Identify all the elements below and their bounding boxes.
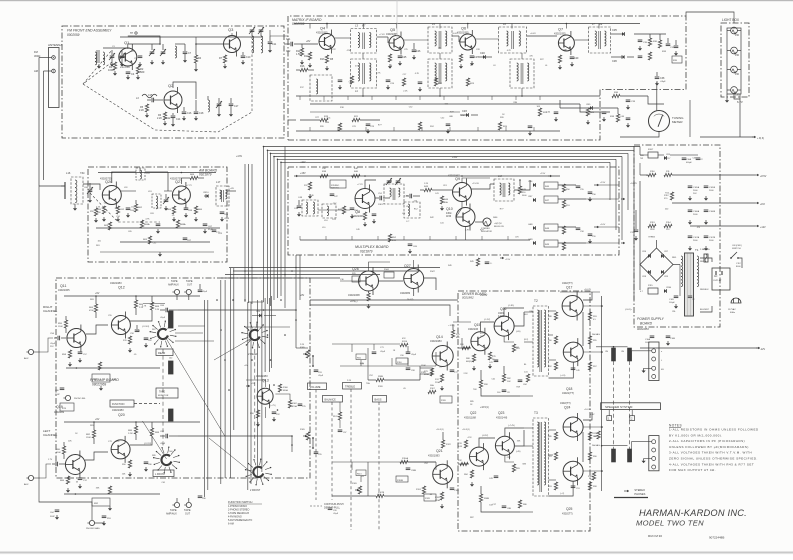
matrix bottom res row: [350, 76, 474, 86]
T3 secondary out: [549, 430, 557, 480]
preamp extra labels: [90, 299, 157, 457]
svg-text:+8.5(+): +8.5(+): [350, 301, 358, 303]
bridge rectifier: [640, 248, 673, 281]
transistor Q19: [65, 451, 85, 479]
left meter feed: [559, 100, 561, 108]
transistor Q6: [460, 30, 476, 54]
tone rail L: [332, 462, 436, 496]
svg-text:STEREO: STEREO: [634, 488, 645, 492]
svg-text:+15V: +15V: [540, 173, 546, 175]
matrix rail drop wire: [396, 24, 398, 29]
svg-text:2A-3AG: 2A-3AG: [592, 444, 600, 447]
svg-text:+10V: +10V: [300, 162, 306, 164]
AM antenna terminal: [52, 69, 56, 73]
volume wiper wires: [316, 354, 332, 420]
svg-text:+ 6.5(+): + 6.5(+): [448, 325, 455, 327]
psu diode CR5b: [652, 154, 676, 163]
transistor Q7: [558, 31, 574, 55]
matrix cluster mid: [538, 108, 594, 125]
speaker terminal 2: [630, 416, 635, 421]
Q21 bottom res: [435, 492, 444, 509]
speaker strip bottom gnd: [642, 459, 646, 464]
driver out to T2: [520, 376, 533, 512]
matrix bottom caps: [338, 80, 423, 92]
svg-text:LIGHT BOX: LIGHT BOX: [722, 18, 740, 22]
mpx L10 coil: [322, 204, 336, 222]
svg-text:Q16: Q16: [500, 307, 507, 311]
Q19 emitter parts: [60, 476, 88, 493]
matrix IF board outline: [288, 16, 686, 140]
bus group2 wires: [248, 296, 272, 490]
svg-text:IFT: IFT: [362, 25, 366, 28]
preamp out cap: [160, 305, 178, 319]
Q24 top wire: [583, 409, 592, 420]
Q12 top res: [134, 296, 143, 315]
svg-text:4.7K: 4.7K: [465, 230, 470, 232]
svg-text:4.7K: 4.7K: [468, 437, 473, 439]
matrix top labels sprinkle: [347, 48, 568, 93]
svg-text:430214-B: 430214-B: [496, 416, 508, 420]
svg-text:Q17: Q17: [566, 286, 573, 290]
Q4 emitter R13: [320, 55, 334, 71]
AM label: [34, 69, 38, 73]
matrix IF board label: [292, 18, 322, 26]
svg-text:(-12.4V): (-12.4V): [142, 326, 150, 328]
svg-text:CR5: CR5: [612, 29, 617, 32]
svg-text:.05µF: .05µF: [318, 375, 324, 377]
psu low caps: [669, 296, 695, 304]
Q13 top parts: [246, 383, 289, 392]
preamp rail R: [64, 292, 200, 296]
svg-text:+8.8: +8.8: [760, 203, 765, 206]
T2 primary wires: [528, 306, 562, 382]
ground Q1 emitter: [136, 75, 140, 80]
svg-text:TAPE: TAPE: [186, 279, 193, 283]
tuning meter: [649, 111, 670, 132]
svg-text:+8V: +8V: [230, 188, 234, 190]
mpx2 q27 bottom: [407, 289, 414, 302]
title Harman-Kardon: [639, 508, 747, 518]
treble link dashed: [350, 389, 352, 530]
speaker strip bottom wires: [632, 442, 652, 462]
mpx top rail: [294, 172, 560, 177]
mech link rear-front dashed: [163, 349, 255, 458]
FM rf coupling parts: [149, 44, 166, 65]
T3 label: [534, 411, 538, 415]
tape amp aux out labels top: [168, 279, 193, 287]
preamp R out wire: [178, 309, 297, 348]
svg-text:1.7V: 1.7V: [48, 459, 53, 461]
svg-text:MODEL TWO TEN: MODEL TWO TEN: [636, 519, 704, 528]
AM C67 cap: [203, 224, 214, 234]
svg-text:43021055: 43021055: [386, 32, 398, 36]
Q27 right res: [194, 206, 203, 222]
driver emit resistors: [512, 344, 520, 472]
driver labels sprinkle: [464, 311, 535, 507]
psu mid rail right: [700, 159, 760, 161]
preamp L bottom net: [64, 486, 160, 511]
tape bottom cap: [198, 496, 207, 500]
Q12 feedback cap: [130, 325, 150, 335]
Q17 top wire: [573, 288, 592, 300]
FM antenna terminal: [52, 56, 56, 60]
balance link dashed: [331, 402, 333, 500]
Q7 emitter parts: [558, 55, 579, 70]
svg-text:+15V: +15V: [300, 172, 306, 175]
ratio det diode CR5: [611, 29, 625, 36]
svg-text:2 REAR: 2 REAR: [248, 352, 257, 356]
power supply board label: [637, 317, 665, 331]
AC outlet slots: [716, 271, 722, 275]
voltage label +10V: [300, 162, 306, 164]
svg-text:BLK/WHT: BLK/WHT: [700, 309, 710, 311]
speaker wire bottom2: [0, 0, 1, 1]
transistor Q28: [359, 267, 379, 295]
mpx out arrows: [594, 182, 606, 228]
matrix sub wire: [580, 104, 610, 112]
svg-text:Q9: Q9: [455, 177, 460, 181]
variable caps at Q3: [249, 27, 264, 34]
svg-text:43021065: 43021065: [58, 288, 70, 292]
driver T2 left wires: [524, 312, 533, 446]
Q20 right res: [144, 422, 160, 445]
svg-text:560: 560: [140, 70, 145, 74]
AM rail drops: [112, 168, 182, 178]
Q27 label: [170, 177, 192, 188]
switch wire: [736, 258, 742, 268]
speaker strip top gnd: [642, 368, 646, 373]
Q27 top res: [181, 174, 204, 184]
wire to Q9: [440, 185, 452, 190]
driver input wires: [481, 396, 533, 438]
L5 label: [432, 22, 435, 26]
tone labels sprinkle: [347, 350, 442, 496]
wire Q7 to L7: [574, 39, 588, 41]
Q9 label: [448, 174, 480, 186]
line cord: [712, 306, 736, 316]
matrix row2 bottom wires: [363, 88, 522, 96]
svg-text:SWITCH: SWITCH: [732, 248, 741, 250]
wire L5-Q6: [452, 33, 459, 42]
svg-text:4302(1)68: 4302(1)68: [464, 416, 476, 420]
transistor Q4: [319, 30, 335, 54]
svg-text:+15V: +15V: [505, 259, 511, 261]
Q14 bottom res: [435, 374, 444, 391]
transistor Q18: [563, 338, 583, 366]
Q24 collector wire: [583, 426, 603, 428]
svg-text:+16.2V: +16.2V: [584, 409, 592, 411]
tone out res: [428, 384, 452, 403]
C38 cap: [655, 72, 667, 86]
front wafer switch: [153, 447, 180, 474]
svg-text:Q8: Q8: [355, 210, 360, 214]
contour sw2: [312, 437, 314, 449]
Q20 emitter parts: [122, 460, 153, 477]
driver mid res R82: [502, 366, 511, 383]
svg-text:470A: 470A: [292, 405, 297, 408]
speaker wire top: [596, 346, 602, 348]
tape monitor slide 2: [169, 361, 174, 374]
matrix mid caps1: [412, 43, 421, 60]
tone rect r1: [356, 354, 366, 360]
title number: [709, 536, 724, 540]
AM varcap2: [163, 194, 169, 211]
svg-text:C15: C15: [148, 94, 153, 97]
psu gnd row2: [688, 220, 708, 225]
svg-text:+6.4V: +6.4V: [530, 33, 536, 35]
svg-text:2A-3AG: 2A-3AG: [592, 333, 600, 336]
svg-text:54K: 54K: [354, 168, 358, 170]
driver low caps: [502, 500, 528, 510]
Q2 left parts: [139, 104, 149, 118]
matrix bottom rail: [296, 130, 560, 132]
svg-text:C10A: C10A: [686, 158, 692, 161]
mpx out arrows2: [621, 198, 625, 244]
mpx 19k filter parts: [338, 206, 359, 219]
mpx2 q28 bottom: [366, 291, 370, 309]
fuse F4: [628, 449, 632, 462]
R123 res: [588, 472, 596, 481]
Q4 bias R12: [304, 52, 312, 68]
Q1 labels extra: [112, 46, 135, 69]
mpx diode col CR9: [528, 239, 536, 245]
svg-text:(+7.4V): (+7.4V): [508, 425, 515, 427]
rear wafer switch: [150, 321, 177, 348]
svg-text:HARMAN-KARDON INC.: HARMAN-KARDON INC.: [639, 508, 747, 518]
preamp L out cap: [160, 431, 178, 445]
bus wire A1: [264, 147, 641, 303]
mpx bottom wire2: [320, 231, 480, 233]
Q9 right res R45: [518, 180, 527, 197]
svg-text:R64A: R64A: [144, 223, 150, 226]
+6V label: [244, 365, 248, 367]
T1 primary wires: [700, 258, 712, 312]
svg-text:150K: 150K: [56, 452, 61, 454]
svg-text:CR2: CR2: [480, 52, 485, 55]
psu gnd row1: [688, 196, 708, 201]
svg-text:+16.5(1): +16.5(1): [462, 429, 470, 431]
svg-text:C10A: C10A: [645, 338, 651, 341]
bridge diode CR6: [642, 251, 651, 258]
Q7 label: [554, 28, 566, 36]
svg-text:Q23: Q23: [498, 411, 505, 415]
volume lower pot: [352, 483, 362, 494]
tone top wire L: [332, 456, 376, 470]
bus wire B1: [284, 147, 286, 309]
transistor Q17: [562, 292, 583, 321]
transistor Q3: [224, 32, 241, 57]
L2 coil: [175, 44, 185, 58]
fuse F3: [612, 449, 616, 462]
speaker strip top labels: [661, 351, 664, 371]
svg-text:C106A: C106A: [693, 210, 700, 213]
mpx2 mid res: [378, 269, 394, 278]
Q8 top wire: [357, 180, 376, 188]
wire Q1 collector: [128, 44, 160, 48]
lamp PL3: [727, 66, 741, 76]
Q15-Q16 wire: [480, 319, 494, 332]
driver labels extra: [462, 401, 475, 519]
svg-text:R116A: R116A: [402, 457, 409, 460]
svg-text:2 FRONT: 2 FRONT: [250, 489, 261, 492]
svg-text:C107A: C107A: [693, 236, 700, 239]
bridge diode CR9: [661, 270, 669, 278]
transistor Q8: [355, 185, 375, 213]
svg-text:0921879: 0921879: [360, 250, 373, 254]
Q15 in wire: [458, 344, 471, 350]
Q10 bulb wire: [475, 222, 504, 228]
tape jack caps top: [198, 284, 208, 293]
svg-text:+9V: +9V: [95, 292, 100, 295]
C15 label: [136, 94, 153, 100]
matrix mid hwire: [310, 111, 460, 113]
svg-text:C105B: C105B: [709, 187, 716, 189]
fuse F1: [605, 348, 616, 361]
svg-text:R98B: R98B: [484, 498, 490, 500]
Q19-Q20 wire: [85, 452, 108, 460]
svg-text:+7.7V: +7.7V: [186, 185, 192, 187]
Q17 label: [562, 281, 573, 290]
svg-text:+8V: +8V: [306, 40, 311, 43]
tape jack 2 top: [184, 289, 191, 300]
Q2 bottom cap pair: [166, 113, 181, 127]
svg-text:POWER SUPPLY: POWER SUPPLY: [637, 317, 665, 321]
light box outline: [721, 23, 749, 97]
Q21 label: [428, 449, 443, 458]
speaker fuse label 2: [592, 444, 600, 447]
tone lower res2: [376, 492, 436, 501]
transistor Q13: [257, 384, 273, 408]
svg-text:150K: 150K: [86, 437, 91, 439]
svg-text:4.7K: 4.7K: [404, 195, 409, 197]
svg-text:RED/BLK: RED/BLK: [700, 289, 709, 291]
transistor Q22: [470, 443, 489, 470]
Q26 label: [100, 177, 112, 185]
on-off switch: [730, 245, 742, 259]
svg-text:CR4: CR4: [528, 181, 533, 183]
Q20 top res: [128, 422, 138, 440]
mpx row2 wires: [300, 260, 414, 281]
svg-text:(-16.2)+: (-16.2)+: [625, 309, 633, 311]
svg-text:+6(12)V: +6(12)V: [494, 223, 502, 225]
matrix rail drop wire: [309, 24, 311, 29]
psu cap row2: [688, 210, 716, 216]
center extra hwires: [130, 304, 290, 327]
psu gnd row3: [688, 246, 708, 251]
AM osc coil L19: [148, 191, 161, 209]
tape monitor slide switch: [169, 311, 174, 328]
Q24 label: [560, 401, 571, 410]
tone top wire R: [332, 344, 400, 358]
mpx diode col CR4: [528, 181, 536, 187]
svg-text:3-ALL VOLTAGES TAKEN WITH V.T.: 3-ALL VOLTAGES TAKEN WITH V.T.V.M. WITH: [669, 451, 752, 455]
contour bottom cap: [328, 508, 339, 515]
driver mid caps: [489, 360, 498, 480]
tone treble caps: [400, 352, 417, 372]
psu R113 R114: [648, 222, 672, 231]
Q13 right parts: [288, 400, 306, 408]
driver bottom rail: [462, 396, 520, 512]
svg-text:PHONO MAG: PHONO MAG: [86, 527, 100, 530]
svg-text:(+.01): (+.01): [560, 375, 566, 377]
svg-text:R107: R107: [648, 149, 654, 151]
AM extra wires: [100, 172, 172, 194]
L3 label: [355, 24, 366, 28]
svg-text:Q3: Q3: [228, 27, 234, 32]
matrix input cap: [284, 38, 300, 53]
tone mid res: [396, 358, 432, 374]
bus wire B2: [244, 164, 246, 302]
svg-text:CHANNEL: CHANNEL: [43, 433, 58, 437]
svg-text:4.7K: 4.7K: [507, 50, 512, 52]
function switch legend: [228, 500, 262, 526]
svg-text:GR8: GR8: [528, 224, 533, 226]
matrix rail drop wire: [363, 24, 365, 29]
Q16 right wire: [514, 312, 524, 333]
psu rail 9.3: [690, 174, 767, 178]
L17 label: [216, 180, 221, 184]
C7 cap: [183, 44, 192, 63]
svg-text:C17: C17: [234, 105, 239, 108]
svg-text:.05µF: .05µF: [202, 291, 208, 293]
speaker strip bottom: [649, 436, 659, 471]
Q28 label: [348, 267, 360, 297]
left long wire 2: [44, 180, 55, 344]
AM loop antenna L16: [66, 171, 85, 204]
L14 transformer: [494, 179, 514, 201]
svg-text:73Ω: 73Ω: [80, 172, 85, 175]
Q28 base res: [340, 273, 360, 282]
preamp input jack R: [24, 349, 40, 360]
tone stack top: [340, 365, 440, 367]
svg-text:C98B: C98B: [411, 470, 417, 472]
T2 out wire: [549, 311, 557, 335]
volume link dashed: [315, 390, 317, 501]
Q9 collector wire: [462, 178, 494, 189]
Q18 collector wire: [583, 351, 603, 353]
svg-text:1.2K: 1.2K: [424, 183, 429, 185]
svg-text:0002059: 0002059: [67, 33, 80, 37]
wire Q5 to L5: [404, 39, 428, 41]
scan crease: [396, 0, 398, 38]
Q16 label: [498, 307, 507, 318]
q13 out wire: [264, 407, 266, 418]
matrix rail drop wire: [326, 24, 328, 29]
psu diode CR10: [664, 287, 672, 293]
preamp mid cluster: [55, 388, 87, 411]
title model: [636, 519, 704, 528]
svg-text:SPEAKER SYSTEM: SPEAKER SYSTEM: [605, 405, 633, 409]
driver input net R: [458, 300, 466, 438]
psu vert internal: [640, 163, 700, 296]
Q2 right cap: [194, 100, 204, 121]
svg-text:43020735: 43020735: [170, 177, 182, 181]
preamp R bottom net: [66, 362, 160, 391]
svg-text:.05µF: .05µF: [224, 218, 230, 220]
Q2 collector cap: [182, 107, 192, 121]
driver C cap: [497, 390, 510, 394]
q13 wires: [246, 380, 290, 400]
svg-text:C21: C21: [286, 38, 291, 41]
voltage label +8.5(+): [350, 301, 358, 303]
T1 core hatch: [686, 253, 692, 316]
transistor Q10: [456, 204, 475, 231]
IF transformer L5: [428, 27, 452, 53]
bus jog wires: [248, 298, 278, 306]
tone caps left: [372, 347, 386, 354]
mpx sep cap: [630, 210, 638, 241]
svg-text:(-6V): (-6V): [516, 331, 521, 333]
